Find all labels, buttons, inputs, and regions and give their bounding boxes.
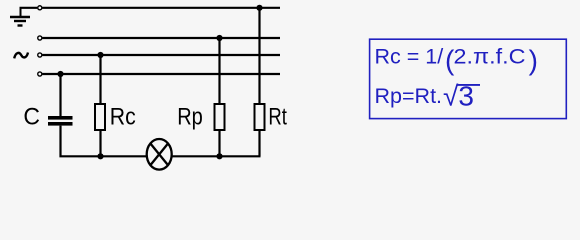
terminal circle phase 2 [38,36,42,40]
node: L3 to Rc junction [97,52,103,58]
terminal circle phase 3 [38,53,42,57]
wire L3 down to Rc [99,55,101,103]
wire ground-to-terminal L1 [20,7,38,9]
wire capacitor to bottom rail [61,126,147,157]
node: L1 to Rt junction [256,5,262,11]
wire L4 down to capacitor [59,74,61,116]
node: L4 to capacitor junction [57,71,63,77]
node: Rc to bottom rail junction [97,153,103,159]
formula box frame [370,39,567,118]
terminal circle phase 1 [38,6,42,10]
resistor Rp [215,104,225,130]
wire L2 down to Rp [218,38,220,103]
capacitor C1 bottom plate [48,122,73,126]
wire L2 [42,37,280,39]
svg-text:Rp: Rp [177,104,203,131]
lamp X1 circle [147,139,172,170]
wire lamp to Rp/Rt bottom rail [173,155,261,157]
AC source symbol ~ [14,53,28,59]
node: Rp to bottom rail junction [216,153,222,159]
wire Rc to bottom rail [99,130,101,156]
wire L1 down to Rt [258,8,260,103]
wire Rp to bottom rail [218,130,220,156]
wire L1 [42,7,280,9]
svg-text:C: C [23,104,40,131]
resistor Rt [255,104,265,130]
wire L4 [42,73,280,75]
terminal circle neutral [38,72,42,76]
svg-text:Rt: Rt [268,104,287,131]
svg-text:Rc: Rc [110,104,136,131]
radical vinculum over 3 [458,84,481,86]
resistor Rc [95,104,105,130]
ground [10,8,30,26]
wire L3 [42,54,280,56]
capacitor C1 top plate [48,116,73,120]
lamp X1 cross bar 1 [150,144,168,166]
svg-text:Rc = 1/(2.π.f.C): Rc = 1/(2.π.f.C) [375,45,538,76]
lamp X1 cross bar 2 [150,144,168,166]
node: L2 to Rp junction [216,35,222,41]
wire Rt to bottom rail [258,130,260,156]
